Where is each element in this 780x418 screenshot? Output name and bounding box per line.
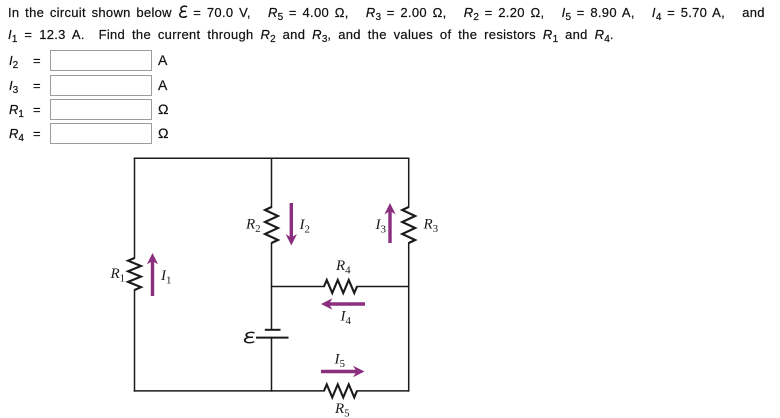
svg-text:I1: I1 — [160, 268, 172, 287]
svg-text:I3: I3 — [375, 217, 387, 236]
svg-text:I4: I4 — [340, 308, 352, 327]
svg-text:R5: R5 — [334, 401, 350, 418]
svg-text:R2: R2 — [245, 217, 261, 236]
svg-text:R4: R4 — [335, 258, 351, 277]
svg-text:R3: R3 — [423, 217, 439, 236]
svg-text:R1: R1 — [110, 266, 126, 285]
svg-text:I2: I2 — [299, 217, 311, 236]
svg-text:I5: I5 — [334, 351, 346, 370]
